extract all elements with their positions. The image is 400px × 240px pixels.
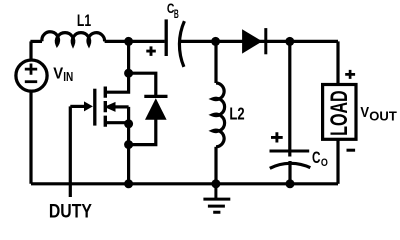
wire VIN top	[29, 41, 32, 59]
node drain/cathode	[124, 69, 133, 78]
wire bottom rail	[31, 182, 338, 185]
wire body-diode anode	[129, 119, 156, 145]
node L1/CB/drain	[124, 37, 133, 46]
svg-text:IN: IN	[63, 69, 73, 84]
transistor Q1 body arrow	[104, 102, 115, 112]
wire L1 to CB plate	[105, 40, 165, 43]
node source/ground rail	[124, 179, 133, 188]
svg-text:LOAD: LOAD	[326, 90, 353, 136]
wire load bottom	[336, 139, 339, 184]
capacitor CO curved plate	[270, 163, 311, 168]
voltage source VIN	[16, 60, 47, 91]
transistor Q1 channel dashes	[104, 87, 107, 127]
capacitor CB plate	[165, 19, 168, 56]
transistor Q1 gate arrow	[84, 101, 93, 111]
svg-text:V: V	[53, 65, 63, 82]
VIN plus sign	[25, 46, 355, 150]
diode D2 triangle	[242, 29, 262, 53]
load box	[323, 85, 356, 140]
diode D1 triangle	[145, 98, 167, 120]
inductor L2 wire bottom	[214, 147, 217, 184]
CB plus sign	[146, 46, 156, 56]
CO plus sign	[271, 132, 283, 142]
wire CO top	[288, 41, 291, 156]
svg-text:OUT: OUT	[369, 108, 397, 123]
svg-text:L1: L1	[77, 11, 91, 30]
ground	[203, 184, 230, 213]
VOUT minus sign	[347, 149, 356, 152]
svg-text:O: O	[321, 157, 328, 169]
svg-text:L2: L2	[229, 103, 244, 123]
svg-text:B: B	[174, 7, 179, 21]
node L2/ground	[211, 179, 220, 188]
node CB/L2/D2	[211, 37, 220, 46]
transistor Q1 gate plate	[93, 89, 96, 126]
wire body-diode cathode	[129, 73, 156, 96]
svg-text:C: C	[312, 149, 321, 167]
wire body tail	[115, 105, 129, 108]
wire CO bottom	[288, 161, 291, 184]
wire VIN bottom	[29, 92, 32, 183]
wire duty gate line	[69, 106, 72, 197]
inductor L2	[213, 83, 225, 147]
capacitor CB curved plate	[179, 21, 184, 67]
inductor L2 wire top	[214, 41, 217, 83]
node CO/ground rail	[286, 179, 295, 188]
wire drain to top node	[105, 41, 128, 92]
VOUT plus sign	[345, 70, 355, 79]
wire top rail left	[30, 40, 42, 43]
node anode	[124, 140, 133, 149]
wire gate tail	[70, 105, 84, 108]
wire main vertical to ground rail	[127, 107, 130, 184]
node D2/CO/load	[285, 37, 294, 46]
node source/body	[124, 119, 133, 128]
svg-text:V: V	[360, 105, 369, 121]
wire top rail right of CB	[179, 40, 338, 43]
diode D1 cathode bar	[144, 95, 167, 98]
inductor L1	[42, 32, 105, 45]
wire source	[105, 121, 128, 124]
svg-text:DUTY: DUTY	[49, 202, 92, 223]
wire right rail top	[336, 41, 339, 84]
VIN minus sign	[25, 80, 37, 83]
diode D2 cathode bar	[264, 28, 267, 54]
capacitor CO plate	[270, 150, 310, 153]
